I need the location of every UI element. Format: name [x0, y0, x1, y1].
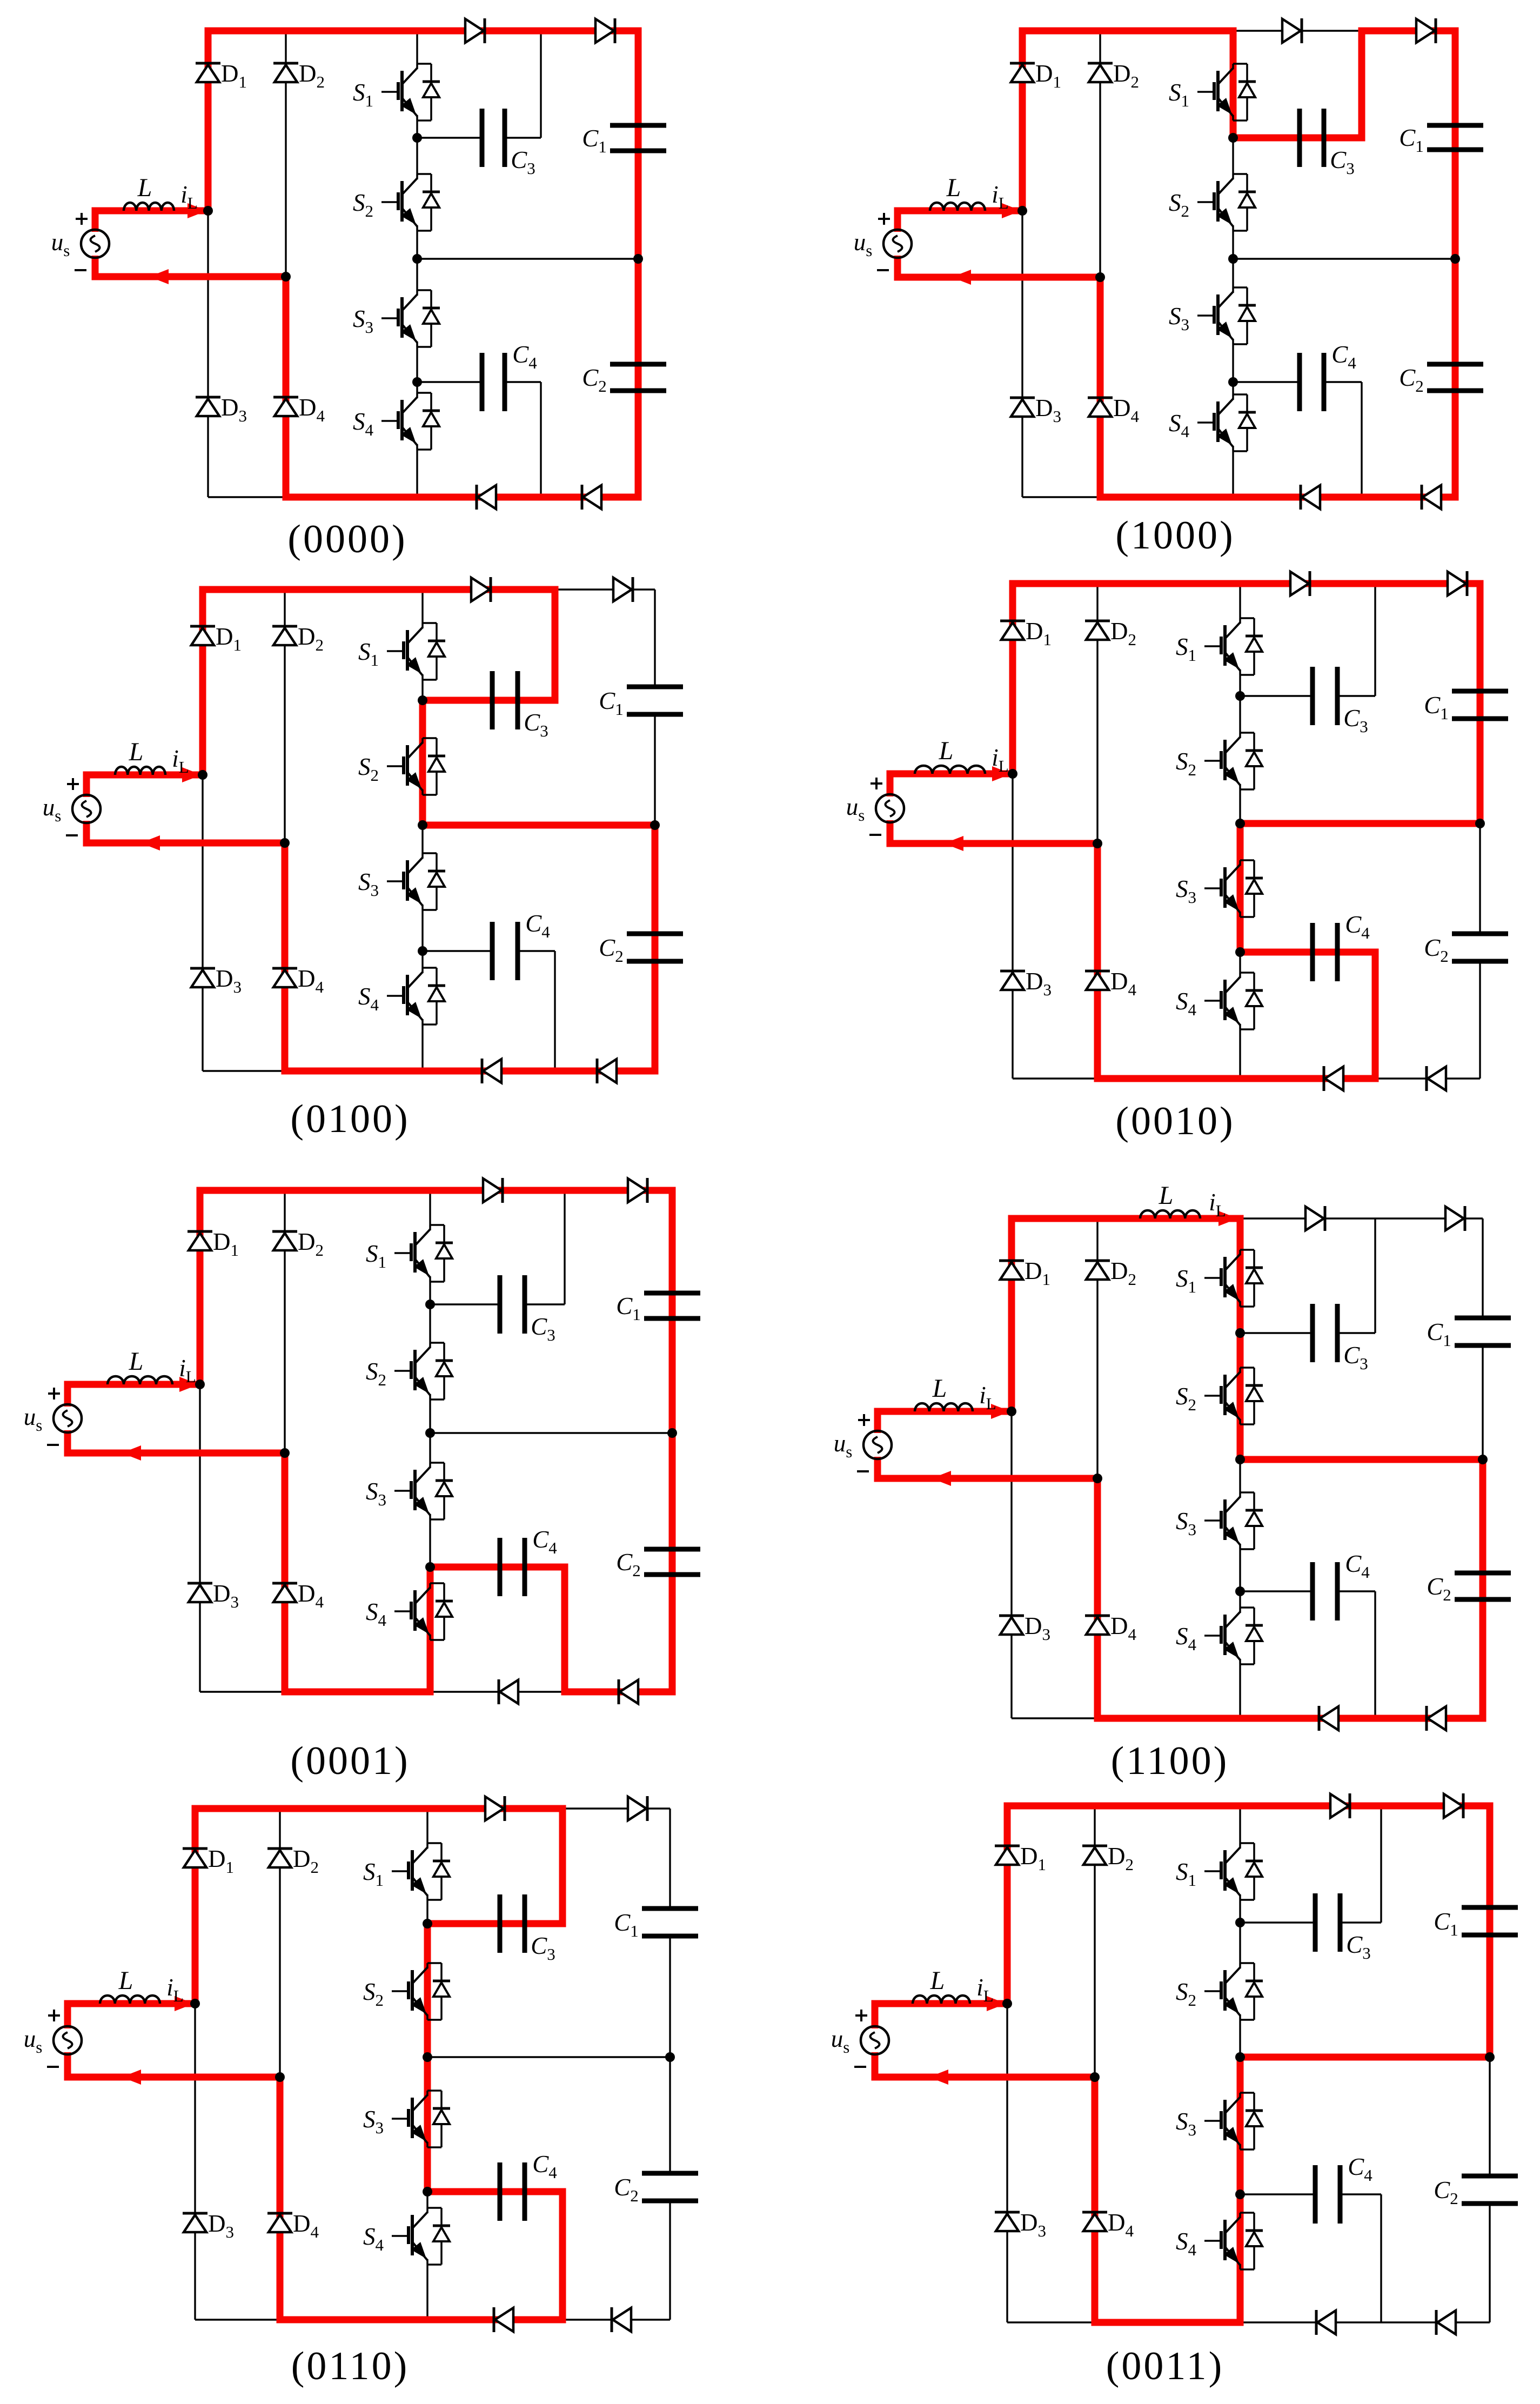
- svg-text:L: L: [118, 1966, 133, 1995]
- svg-text:L: L: [137, 173, 152, 202]
- svg-text:L: L: [946, 173, 961, 202]
- svg-text:L: L: [932, 1374, 947, 1403]
- svg-text:L: L: [129, 738, 144, 766]
- svg-text:(0011): (0011): [1106, 2344, 1224, 2388]
- svg-text:(0001): (0001): [290, 1739, 410, 1783]
- svg-text:(0110): (0110): [291, 2344, 410, 2388]
- svg-text:(0100): (0100): [290, 1097, 410, 1141]
- svg-text:L: L: [930, 1966, 945, 1995]
- svg-text:(0000): (0000): [287, 517, 407, 561]
- svg-text:(1000): (1000): [1115, 513, 1235, 558]
- svg-text:L: L: [1159, 1181, 1174, 1210]
- svg-text:L: L: [939, 736, 954, 765]
- svg-text:(0010): (0010): [1115, 1099, 1235, 1143]
- svg-text:L: L: [129, 1347, 144, 1376]
- svg-text:(1100): (1100): [1111, 1739, 1229, 1783]
